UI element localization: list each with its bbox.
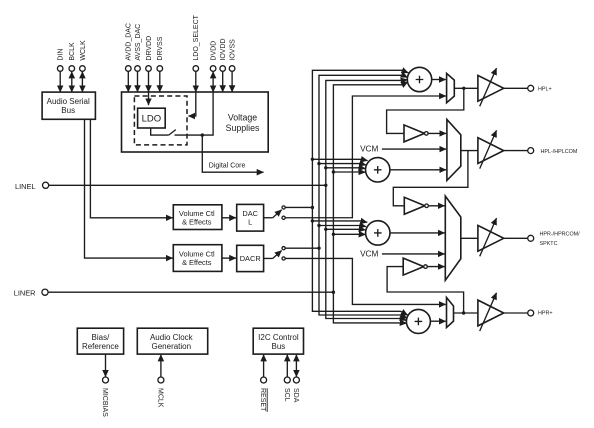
mux 4 [447, 298, 454, 328]
svg-text:LDO_SELECT: LDO_SELECT [193, 14, 200, 60]
block DAC L [237, 204, 264, 231]
wire V1 branch to sum2 [312, 159, 367, 160]
pin IOVDD [220, 38, 227, 92]
wire mux3 to amp3 [461, 237, 478, 239]
svg-text:SCL: SCL [283, 388, 290, 402]
pin HPL-/HPLCOM [528, 148, 578, 155]
svg-text:& Effects: & Effects [182, 258, 212, 267]
svg-text:HPL-/HPLCOM: HPL-/HPLCOM [541, 149, 578, 155]
wire V1 branch to sum3 [312, 221, 367, 222]
amplifier 4 (HPR+) [478, 293, 504, 331]
pin DRVDD [146, 36, 153, 92]
svg-text:DRVSS: DRVSS [157, 36, 164, 60]
block Bias/Reference [77, 328, 123, 354]
wire V4 branch to sum2 [333, 171, 365, 173]
wire sum2 to mux2 [390, 169, 446, 171]
svg-text:Audio Clock: Audio Clock [150, 333, 194, 342]
node amp1 input junction [462, 87, 465, 90]
block Voltage Supplies [122, 92, 269, 152]
wire sum1 to mux1 [432, 79, 446, 81]
amplifier 1 (HPL+) [478, 68, 504, 106]
wire mux2 to amp2 [461, 150, 478, 152]
svg-text:Voltage: Voltage [228, 112, 257, 122]
summing amp 1 (HPL+) [407, 67, 431, 91]
pin HPR-/HPRCOM/SPKTC [528, 232, 580, 247]
wire bus V3 (LINEL) [326, 80, 408, 321]
wire V3 branch to sum2 [326, 167, 366, 170]
pin MCLK [157, 355, 164, 408]
svg-text:HPR-/HPRCOM/: HPR-/HPRCOM/ [540, 232, 581, 238]
block Volume Ctl R [173, 245, 222, 272]
pin LINER [14, 289, 48, 298]
pin DRVSS [157, 36, 164, 92]
wire LINER to bus [48, 291, 334, 293]
wire DACR top contact to bus V2 [285, 247, 319, 249]
wire serial bus to Volume Ctl R [85, 119, 173, 258]
wire inverter B to mux3 [428, 205, 444, 207]
amplifier 2 (HPL-/HPLCOM) [478, 130, 504, 168]
wire feedback to inverter C [387, 267, 464, 313]
pin RESET [259, 355, 267, 412]
svg-text:Supplies: Supplies [226, 123, 260, 133]
amplifier 3 (HPR/HPRCOM) [478, 218, 504, 256]
wire Volume L to DAC L [222, 217, 236, 219]
wire inverter A to mux2 [428, 132, 446, 134]
pin BCLK [69, 42, 76, 92]
block Audio Serial Bus [42, 92, 95, 119]
mux 2 [447, 120, 461, 181]
svg-text:WCLK: WCLK [80, 40, 87, 61]
pin LDO_SELECT [193, 14, 200, 92]
svg-text:VCM: VCM [360, 145, 378, 154]
wire mux4 to amp4 [454, 312, 478, 314]
svg-text:HPL+: HPL+ [538, 86, 552, 92]
pin AVSS_DAC [135, 24, 142, 92]
wire sum4 to mux4 [430, 320, 445, 322]
svg-text:Generation: Generation [152, 342, 192, 351]
LDO switch [151, 128, 176, 135]
wire Volume R to DACR [222, 257, 236, 259]
svg-text:Reference: Reference [82, 342, 119, 351]
switch DAC L output [264, 206, 286, 220]
wire DRVDD to LDO [148, 92, 150, 105]
block LDO [138, 108, 166, 128]
svg-text:L: L [248, 218, 252, 227]
wire DACL bypass to mux1 [285, 96, 446, 218]
block I2C Control Bus [253, 328, 303, 354]
pin SDA [292, 355, 299, 403]
pin AVDD_DAC [126, 23, 133, 92]
wire bus V2 (DACR) [319, 75, 408, 318]
summing amp 2 [366, 158, 390, 182]
node LINER junction [332, 291, 335, 294]
svg-text:BCLK: BCLK [69, 42, 76, 61]
wire amp4 to HPR+ pin [504, 312, 528, 314]
wire feedback to inverter A [387, 88, 464, 133]
inverter B [404, 197, 428, 214]
svg-text:& Effects: & Effects [182, 218, 212, 227]
wire bus V4 (LINER) [333, 82, 408, 323]
wire V2 branch to sum2 [319, 164, 366, 165]
wire feedback to inverter B [393, 151, 468, 206]
svg-text:DIN: DIN [58, 49, 65, 61]
pin MICBIAS [101, 354, 108, 417]
svg-text:HPR+: HPR+ [538, 311, 553, 317]
svg-text:VCM: VCM [360, 249, 378, 258]
wire serial bus to Volume Ctl L [90, 119, 172, 218]
svg-text:I2C Control: I2C Control [258, 333, 299, 342]
block DACR [237, 245, 264, 271]
wire VCM to mux3 [382, 253, 445, 255]
wire VCM to mux2 [382, 148, 446, 150]
pin DVDD [210, 41, 217, 92]
wire LINEL to bus [48, 184, 325, 186]
wire amp1 to HPL+ pin [504, 87, 528, 89]
wire mux1 to amp1 [454, 87, 478, 89]
svg-text:Bus: Bus [272, 342, 286, 351]
svg-text:AVDD_DAC: AVDD_DAC [126, 23, 133, 61]
node amp4 input junction [462, 311, 465, 314]
wire Digital Core supply [202, 135, 263, 172]
svg-text:Bus: Bus [61, 106, 75, 115]
svg-text:IOVDD: IOVDD [220, 38, 227, 60]
svg-text:MCLK: MCLK [157, 388, 164, 408]
block Audio Clock Generation [137, 328, 207, 354]
svg-text:SDA: SDA [292, 388, 299, 403]
svg-text:DVDD: DVDD [211, 41, 218, 61]
wire DACR bypass to mux4 [285, 258, 446, 304]
mux 3 [445, 196, 461, 280]
node LINEL junction [324, 184, 327, 187]
inverter C [403, 258, 427, 275]
mux 1 [447, 73, 455, 102]
pin LINEL [15, 182, 49, 191]
pin WCLK [80, 40, 87, 92]
svg-text:Audio Serial: Audio Serial [47, 97, 90, 106]
svg-text:AVSS_DAC: AVSS_DAC [135, 24, 142, 61]
wire V2 branch to sum3 [319, 226, 366, 227]
pin HPR+ [528, 310, 553, 317]
wire inverter C to mux3 [427, 266, 444, 268]
svg-text:Digital Core: Digital Core [209, 163, 246, 170]
summing amp 3 [366, 221, 390, 245]
pin HPL+ [528, 85, 552, 92]
wire LDO output to DVDD [175, 92, 214, 135]
wire V4 branch to sum3 [333, 233, 365, 235]
svg-text:SPKTC: SPKTC [540, 241, 558, 247]
svg-text:DACR: DACR [240, 254, 261, 263]
wire amp2 to HPL- pin [504, 150, 528, 152]
svg-text:IOVSS: IOVSS [230, 39, 237, 61]
pin IOVSS [229, 39, 236, 92]
wire amp3 to HPR pin [504, 237, 528, 239]
svg-text:LDO: LDO [142, 114, 162, 125]
svg-text:RESET: RESET [259, 388, 266, 412]
block Volume Ctl L [173, 205, 222, 230]
svg-text:DRVDD: DRVDD [146, 36, 153, 61]
svg-text:Volume Ctl: Volume Ctl [179, 249, 215, 258]
switch DACR output [264, 247, 286, 261]
wire LDO_SELECT into LDO region [188, 92, 195, 116]
svg-text:LINEL: LINEL [15, 182, 36, 191]
svg-text:Bias/: Bias/ [92, 333, 111, 342]
pin SCL [283, 355, 290, 402]
wire sum3 to mux3 [390, 232, 445, 234]
svg-text:MICBIAS: MICBIAS [101, 388, 108, 417]
node LDO output junction [201, 133, 204, 136]
inverter A [404, 125, 428, 142]
summing amp 4 [406, 309, 430, 333]
wire DACL top contact to bus V1 [285, 206, 312, 208]
pin DIN [57, 49, 64, 93]
wire bus V1 (DAC L) [312, 70, 408, 315]
svg-text:LINER: LINER [14, 289, 36, 298]
svg-text:Volume Ctl: Volume Ctl [179, 209, 215, 218]
svg-text:DAC: DAC [242, 209, 258, 218]
dashed LDO region [134, 96, 187, 145]
wire V3 branch to sum3 [326, 228, 366, 231]
